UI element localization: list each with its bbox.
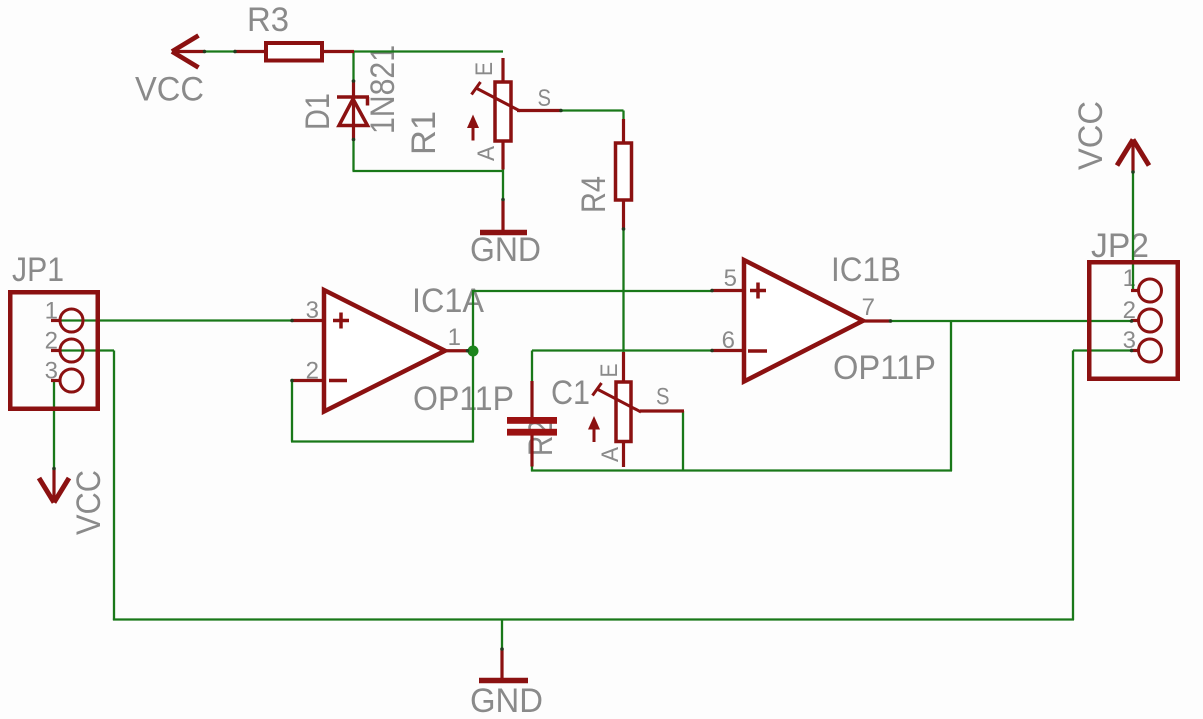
pin R2 S — [640, 409, 684, 412]
op-amp IC1B minus input — [748, 349, 767, 353]
pin IC1B 6 — [712, 349, 746, 352]
wire IC1A out to IC1B pin5 — [473, 290, 713, 292]
wire JP1 pin3 to VCC down — [53, 379, 55, 470]
potentiometer R1 body — [495, 82, 511, 141]
wire corner down to R4 top — [622, 111, 624, 122]
pin JP2 3 — [1131, 349, 1139, 352]
svg-text:S: S — [656, 384, 670, 411]
wire down to D1 cathode — [352, 52, 354, 82]
pin JP1 3 — [51, 379, 61, 382]
pin IC1B 5 — [712, 289, 746, 292]
pin JP1 1 — [51, 319, 61, 322]
connector JP2 — [1089, 262, 1178, 379]
wire JP1 pin2 down to bottom bus — [113, 351, 115, 621]
wire R1 A to GND stub — [502, 169, 504, 201]
wire JP2 pin3 down to bottom bus — [1072, 351, 1074, 621]
svg-text:R1: R1 — [405, 111, 443, 155]
pin GND top stub — [501, 199, 504, 231]
pin end junction points — [52, 50, 1135, 651]
pin R4 top — [622, 119, 625, 143]
potentiometer R1 wiper — [472, 82, 521, 111]
supply VCC arrow up at JP2 pin1 — [1117, 140, 1149, 173]
wire D1 anode to R1 A horizontal — [353, 170, 504, 172]
wire JP2 pin3 horizontal — [1073, 349, 1132, 351]
pin IC1A 2 — [292, 379, 326, 382]
wire feedback bottom bus IC1B — [531, 469, 952, 471]
potentiometer R1 arrow — [467, 115, 479, 141]
wire C1 bottom to bus — [531, 465, 533, 471]
wire IC1B out feedback vertical — [950, 321, 952, 471]
svg-text:JP1: JP1 — [12, 251, 64, 289]
ground GND bottom — [479, 678, 528, 684]
pin C1 top — [530, 381, 533, 418]
pin R1 E — [501, 58, 504, 82]
svg-text:C1: C1 — [551, 374, 590, 412]
svg-text:GND: GND — [470, 231, 541, 269]
pin D1 through — [352, 80, 355, 141]
svg-text:E: E — [471, 62, 498, 76]
supply VCC arrow down at JP1 pin3 — [39, 469, 69, 503]
svg-text:R2: R2 — [522, 420, 560, 456]
wire IC1B pin6 horizontal — [532, 349, 713, 351]
ground GND top — [480, 230, 527, 236]
wire VCC arrow to R3 — [204, 50, 236, 52]
svg-text:1N821: 1N821 — [364, 45, 402, 134]
diode D1 zener — [337, 97, 369, 126]
svg-text:VCC: VCC — [1072, 101, 1110, 170]
pin R2 E — [622, 352, 625, 382]
op-amp IC1B plus input — [750, 283, 766, 299]
pin IC1B 7 out — [862, 319, 892, 322]
svg-text:JP2: JP2 — [1091, 227, 1149, 265]
connector JP1 — [10, 292, 98, 409]
svg-text:E: E — [596, 364, 623, 378]
wire R2 S down to bus — [682, 411, 684, 471]
wire R3 to R1 E — [352, 50, 503, 52]
svg-text:GND: GND — [470, 682, 543, 719]
svg-text:IC1B: IC1B — [831, 251, 901, 289]
resistor R3 — [266, 43, 322, 61]
op-amp IC1A minus input — [329, 379, 347, 383]
pin R4 bottom — [622, 200, 625, 230]
op-amp IC1B — [744, 260, 863, 382]
wire IC1B out to JP2 pin2 — [890, 320, 1132, 322]
op-amp IC1A — [324, 290, 445, 412]
wires (nets) — [54, 52, 1133, 651]
wire vertical through output node A — [472, 290, 474, 442]
wire bottom ground bus — [113, 618, 1074, 620]
svg-text:R3: R3 — [247, 1, 289, 39]
pin R1 A — [501, 141, 504, 170]
connector JP1 pin circles — [60, 309, 83, 392]
pin R3 right — [322, 50, 354, 53]
pin JP1 2 — [51, 349, 61, 352]
svg-text:OP11P: OP11P — [413, 380, 514, 418]
svg-text:VCC: VCC — [135, 71, 204, 109]
wire down to C1 top — [531, 351, 533, 383]
pin GND bottom stub — [500, 649, 503, 680]
op-amp IC1A plus input — [333, 313, 349, 329]
svg-text:OP11P: OP11P — [833, 349, 936, 387]
pin IC1A 1 out — [444, 349, 468, 352]
pin C1 bottom — [530, 436, 533, 467]
wire JP1 pin2 right — [61, 349, 114, 351]
pin R3 left — [234, 50, 266, 53]
pin IC1A 3 — [292, 319, 326, 322]
capacitor C1 — [507, 417, 557, 436]
pin R1 S — [517, 109, 561, 112]
svg-text:S: S — [538, 85, 552, 112]
potentiometer R2 arrow — [588, 416, 600, 442]
pin JP2 1 — [1131, 289, 1139, 292]
wire bus to GND symbol — [501, 620, 503, 651]
pin JP2 2 — [1131, 319, 1139, 322]
pin R2 A — [622, 442, 625, 467]
wire JP1 pin1 to IC1A pin3 — [61, 319, 293, 321]
potentiometer R2 body — [616, 382, 631, 442]
wire R1 wiper S to R4 — [560, 109, 624, 111]
svg-text:VCC: VCC — [70, 470, 108, 535]
wire VCC up to JP2 pin1 — [1132, 171, 1134, 291]
potentiometer R2 wiper — [593, 383, 642, 412]
resistor R4 — [616, 143, 632, 200]
svg-text:7: 7 — [862, 294, 875, 321]
svg-text:5: 5 — [724, 265, 737, 292]
connector JP2 pin circles — [1139, 279, 1162, 362]
supply VCC arrow top-left — [172, 36, 205, 68]
svg-text:A: A — [597, 447, 624, 462]
svg-text:1: 1 — [448, 324, 461, 351]
node junction at IC1A output — [468, 346, 479, 357]
svg-text:D1: D1 — [299, 93, 337, 130]
wire feedback bottom IC1A — [291, 440, 474, 442]
svg-text:A: A — [473, 146, 500, 161]
svg-text:R4: R4 — [575, 176, 613, 213]
wire R4 bottom to R2 E node — [622, 228, 624, 353]
wire feedback left vertical IC1A — [291, 379, 293, 442]
wire D1 anode down — [352, 139, 354, 171]
red pin stubs — [51, 52, 1139, 680]
